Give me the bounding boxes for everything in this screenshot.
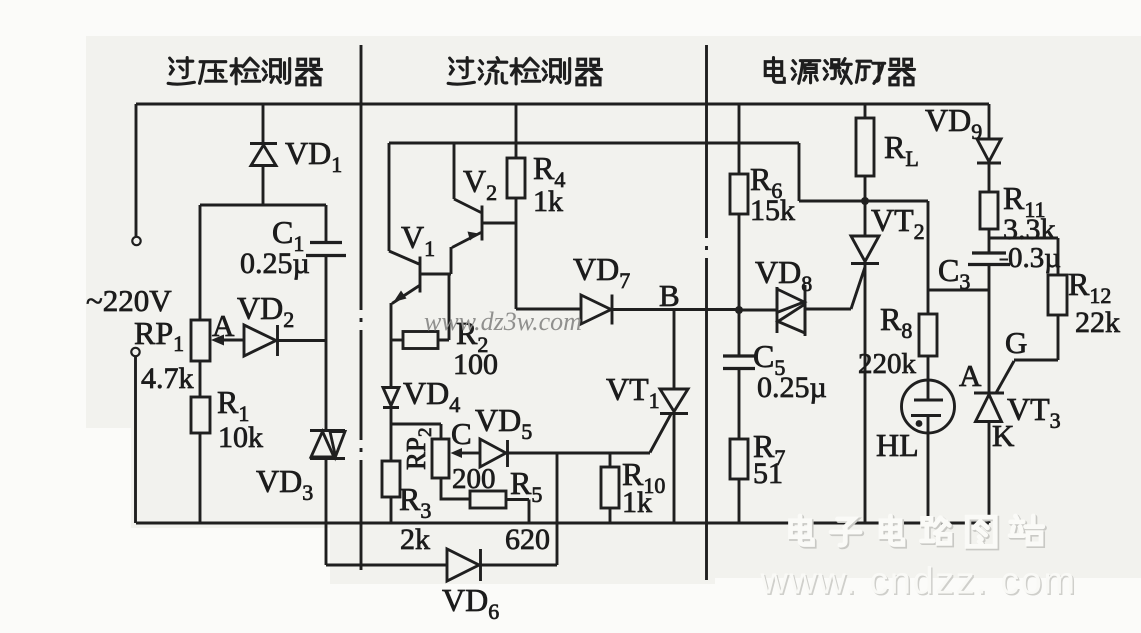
svg-text:620: 620 xyxy=(505,523,550,556)
svg-text:100: 100 xyxy=(453,348,498,381)
wire C3 to VT3 xyxy=(988,265,991,394)
svg-text:VD6: VD6 xyxy=(442,582,499,624)
wire V-box top edge xyxy=(389,142,799,145)
resistor R5 xyxy=(470,491,529,523)
svg-text:www. cndzz. com: www. cndzz. com xyxy=(760,561,1077,603)
resistor R10 xyxy=(601,453,619,523)
resistor R11 xyxy=(980,192,998,253)
resistor R2 xyxy=(391,274,449,349)
wire VT1 gate xyxy=(650,414,671,453)
thyristor VT1 xyxy=(660,309,688,523)
diode VD2 xyxy=(244,325,326,356)
resistor R8 xyxy=(919,314,937,356)
junction dot B branch xyxy=(735,306,743,314)
wire V1 emitter down xyxy=(390,303,393,387)
resistor R7 xyxy=(730,369,748,524)
wire R4 to VD7 xyxy=(516,308,581,311)
wire top rail xyxy=(136,103,989,106)
svg-text:10k: 10k xyxy=(218,421,263,454)
junction dot RL/VT2 xyxy=(861,197,869,205)
wire R11 to R12 xyxy=(989,238,1058,275)
header 过流检测器 xyxy=(448,58,601,85)
terminal upper xyxy=(132,237,140,245)
svg-text:C: C xyxy=(451,416,472,451)
wire C1 down through VD2 tap xyxy=(325,256,328,431)
resistor R1 xyxy=(191,397,210,433)
svg-text:15k: 15k xyxy=(750,194,795,227)
capacitor C1 xyxy=(306,243,346,256)
wire VD4/R3/RP2 junction xyxy=(391,424,441,439)
svg-text:A: A xyxy=(212,308,235,343)
svg-text:1k: 1k xyxy=(533,185,563,218)
wire R1 to bottom rail xyxy=(199,433,202,523)
diode VD7 xyxy=(581,295,739,325)
wire left box left side xyxy=(199,205,202,320)
wire VD6 up to gate line xyxy=(556,453,559,565)
svg-text:A: A xyxy=(959,358,982,393)
svg-text:0.25µ: 0.25µ xyxy=(240,247,310,280)
wire RP2 to R5 xyxy=(441,478,470,499)
wire VD8 to VT2 gate xyxy=(851,267,865,309)
resistor R6 xyxy=(730,104,748,356)
neon lamp HL xyxy=(902,356,955,523)
diode VD1 xyxy=(250,104,277,205)
svg-text:4.7k: 4.7k xyxy=(141,362,194,395)
svg-text:22k: 22k xyxy=(1075,306,1120,339)
svg-text:B: B xyxy=(659,278,680,313)
terminal lower xyxy=(131,348,139,356)
svg-text:51: 51 xyxy=(753,457,783,490)
wire VD3 to bottom rail and down xyxy=(325,459,328,566)
svg-text:200: 200 xyxy=(452,463,496,495)
thyristor VT2 xyxy=(851,201,879,523)
diac VD8 xyxy=(777,285,851,336)
svg-text:1k: 1k xyxy=(622,486,652,519)
wire left drop to AC terminal xyxy=(135,104,138,236)
svg-text:0.25µ: 0.25µ xyxy=(757,371,827,404)
capacitor C3 xyxy=(968,253,1010,265)
diode VD6 xyxy=(447,549,557,581)
wire left box top edge xyxy=(200,204,326,207)
potentiometer RP2 xyxy=(432,439,449,478)
wire lower terminal to bottom rail xyxy=(134,357,137,524)
wire node to R8/C3 xyxy=(928,201,989,314)
wire B to VD8 xyxy=(739,309,777,312)
wire VD6 branch xyxy=(326,564,447,567)
svg-text:HL: HL xyxy=(876,427,919,463)
section divider 2 xyxy=(705,45,708,580)
wire V-box right drop to exciter xyxy=(799,143,928,201)
svg-text:220k: 220k xyxy=(858,348,917,380)
wire V2 emitter to node xyxy=(450,247,453,274)
wire VT3 gate G xyxy=(996,361,1014,393)
resistor R4 xyxy=(507,104,525,309)
wiper arrow node A xyxy=(211,335,244,346)
potentiometer RP1 xyxy=(191,320,210,361)
thyristor VT3 xyxy=(974,393,1004,523)
header 过压检测器 xyxy=(168,58,321,85)
svg-text:0.3µ: 0.3µ xyxy=(1008,242,1061,274)
header 电源激励器 xyxy=(765,58,914,85)
diode VD9 xyxy=(977,104,1001,192)
resistor R12 xyxy=(1014,275,1067,360)
diode VD4 xyxy=(383,388,399,425)
diode VD5 xyxy=(467,439,650,467)
wiper arrow node C xyxy=(451,448,468,458)
resistor RL xyxy=(856,104,874,201)
wire RP1 to R1 xyxy=(199,361,202,397)
wire bottom rail xyxy=(136,522,989,525)
watermark 电子电路图站 xyxy=(791,516,1045,548)
svg-text:~220V: ~220V xyxy=(86,283,172,318)
wire left box right side xyxy=(325,205,328,242)
resistor R3 xyxy=(382,424,400,523)
svg-text:2k: 2k xyxy=(400,523,430,556)
svg-text:www.dz3w.com: www.dz3w.com xyxy=(424,307,582,336)
svg-text:G: G xyxy=(1005,325,1027,360)
transistor V2 xyxy=(452,143,516,248)
section divider 1 xyxy=(360,45,363,570)
transistor V1 xyxy=(389,143,451,304)
capacitor C5 xyxy=(723,356,755,369)
zener pair VD3 xyxy=(310,431,345,459)
